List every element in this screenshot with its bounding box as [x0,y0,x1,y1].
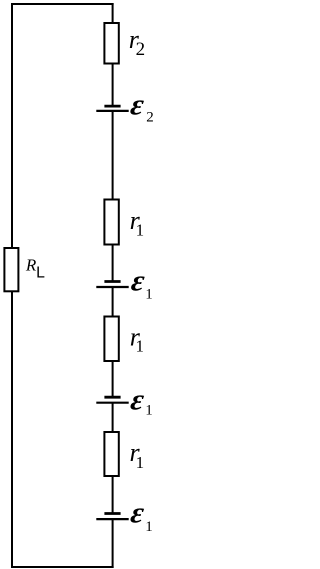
svg-text:1: 1 [136,453,145,472]
svg-text:R: R [25,256,37,275]
svg-text:L: L [36,265,45,282]
svg-text:1: 1 [145,286,153,302]
svg-text:2: 2 [146,110,154,126]
svg-text:2: 2 [136,39,146,60]
svg-text:ε: ε [129,383,147,416]
svg-text:ε: ε [129,496,147,529]
svg-text:1: 1 [136,336,145,355]
svg-text:1: 1 [145,402,153,418]
svg-text:ε: ε [128,88,146,121]
svg-text:1: 1 [136,221,145,240]
svg-text:1: 1 [145,519,153,535]
